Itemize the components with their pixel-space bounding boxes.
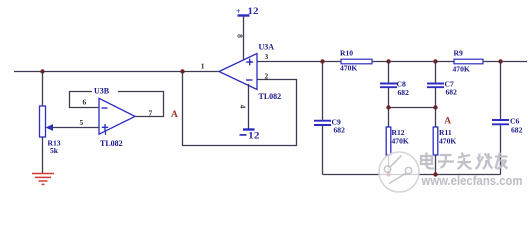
wire: C8 vertical branch xyxy=(388,62,390,108)
resistor R13 potentiometer body xyxy=(40,106,46,137)
svg-text:682: 682 xyxy=(398,88,410,97)
svg-text:8: 8 xyxy=(236,34,245,38)
resistor R12 xyxy=(386,127,391,155)
watermark text dianzifashaoyou xyxy=(421,153,508,170)
op-amp U3B feedback wire pin6 loop xyxy=(70,92,164,117)
wire: mid bus xyxy=(389,107,436,109)
op-amp U3B label halo xyxy=(92,88,118,95)
svg-text:U3B: U3B xyxy=(94,87,110,96)
svg-text:C6: C6 xyxy=(510,117,519,126)
resistor R9 xyxy=(454,59,483,64)
node junction C6 tap xyxy=(498,59,502,63)
power +12 bar xyxy=(238,14,250,16)
resistor R11 xyxy=(433,127,438,155)
svg-text:682: 682 xyxy=(511,126,523,135)
svg-text:R9: R9 xyxy=(454,48,463,57)
wire: R11 vertical branch xyxy=(435,108,437,175)
node junction bottom bus R12 xyxy=(386,172,390,176)
wire: U3A pin3 top net xyxy=(257,61,527,63)
node junction mid bus right xyxy=(433,105,437,109)
op-amp U3B plus symbol xyxy=(102,124,108,130)
wire: R13 top vertical xyxy=(42,72,44,107)
svg-text:www.elecfans.com: www.elecfans.com xyxy=(421,173,523,188)
label -12 minus xyxy=(240,134,247,136)
wire: C7 vertical branch xyxy=(435,62,437,108)
resistor R13 wiper arrow xyxy=(51,127,99,129)
watermark logo circle xyxy=(379,152,419,192)
svg-text:5: 5 xyxy=(80,118,84,127)
op-amp U3B minus symbol xyxy=(102,107,108,109)
capacitor C8 xyxy=(380,84,397,88)
svg-text:470K: 470K xyxy=(340,64,357,73)
op-amp U3B xyxy=(99,98,135,134)
svg-text:6: 6 xyxy=(83,98,87,107)
svg-text:R11: R11 xyxy=(439,128,452,137)
wire: U3A -V power pin 4 xyxy=(248,84,250,130)
op-amp U3B hidden power pin tick xyxy=(105,131,107,136)
resistor R10 xyxy=(341,59,372,64)
wire: main output net horizontal xyxy=(14,71,219,73)
wire: U3A +V power pin 8 xyxy=(243,16,245,60)
op-amp U3A minus symbol xyxy=(246,79,253,81)
svg-text:3: 3 xyxy=(265,52,269,61)
node junction bottom bus R11 xyxy=(433,172,437,176)
svg-text:12: 12 xyxy=(248,130,260,140)
node junction at feedback tap xyxy=(180,69,184,73)
svg-text:2: 2 xyxy=(265,71,269,80)
op-amp U3A xyxy=(219,54,257,90)
svg-text:TL082: TL082 xyxy=(259,92,282,101)
svg-text:470K: 470K xyxy=(439,137,456,146)
svg-text:4: 4 xyxy=(239,105,248,109)
power -12 bar xyxy=(243,128,255,130)
node junction at R13 tap xyxy=(40,69,44,73)
wire: C9 vertical branch xyxy=(322,62,324,175)
node junction C9 tap xyxy=(320,59,324,63)
capacitor C7 xyxy=(427,84,444,88)
svg-text:470K: 470K xyxy=(392,137,409,146)
node junction mid bus left xyxy=(386,105,390,109)
svg-text:U3A: U3A xyxy=(259,43,275,52)
wire: bottom bus xyxy=(323,174,501,176)
svg-text:5k: 5k xyxy=(50,146,59,155)
wire: C6 vertical branch xyxy=(500,62,502,175)
op-amp U3A plus symbol xyxy=(246,59,253,66)
wire: U3A feedback loop xyxy=(183,72,297,146)
wire: R13 bottom to ground xyxy=(42,137,44,173)
node junction C8 tap xyxy=(386,59,390,63)
capacitor C9 xyxy=(314,121,331,125)
svg-text:A: A xyxy=(171,110,178,120)
svg-text:682: 682 xyxy=(446,88,458,97)
svg-text:470K: 470K xyxy=(453,64,470,73)
svg-text:A: A xyxy=(444,117,451,127)
ground xyxy=(32,174,54,185)
svg-text:12: 12 xyxy=(248,6,260,16)
svg-text:TL082: TL082 xyxy=(100,139,123,148)
svg-text:1: 1 xyxy=(201,62,205,71)
node junction C7 tap xyxy=(433,59,437,63)
svg-text:+: + xyxy=(236,7,241,16)
svg-text:682: 682 xyxy=(334,126,346,135)
svg-text:R10: R10 xyxy=(340,48,353,57)
svg-text:R12: R12 xyxy=(392,128,405,137)
wire: R12 vertical branch xyxy=(388,108,390,175)
capacitor C6 xyxy=(492,120,509,124)
svg-text:7: 7 xyxy=(149,109,153,118)
